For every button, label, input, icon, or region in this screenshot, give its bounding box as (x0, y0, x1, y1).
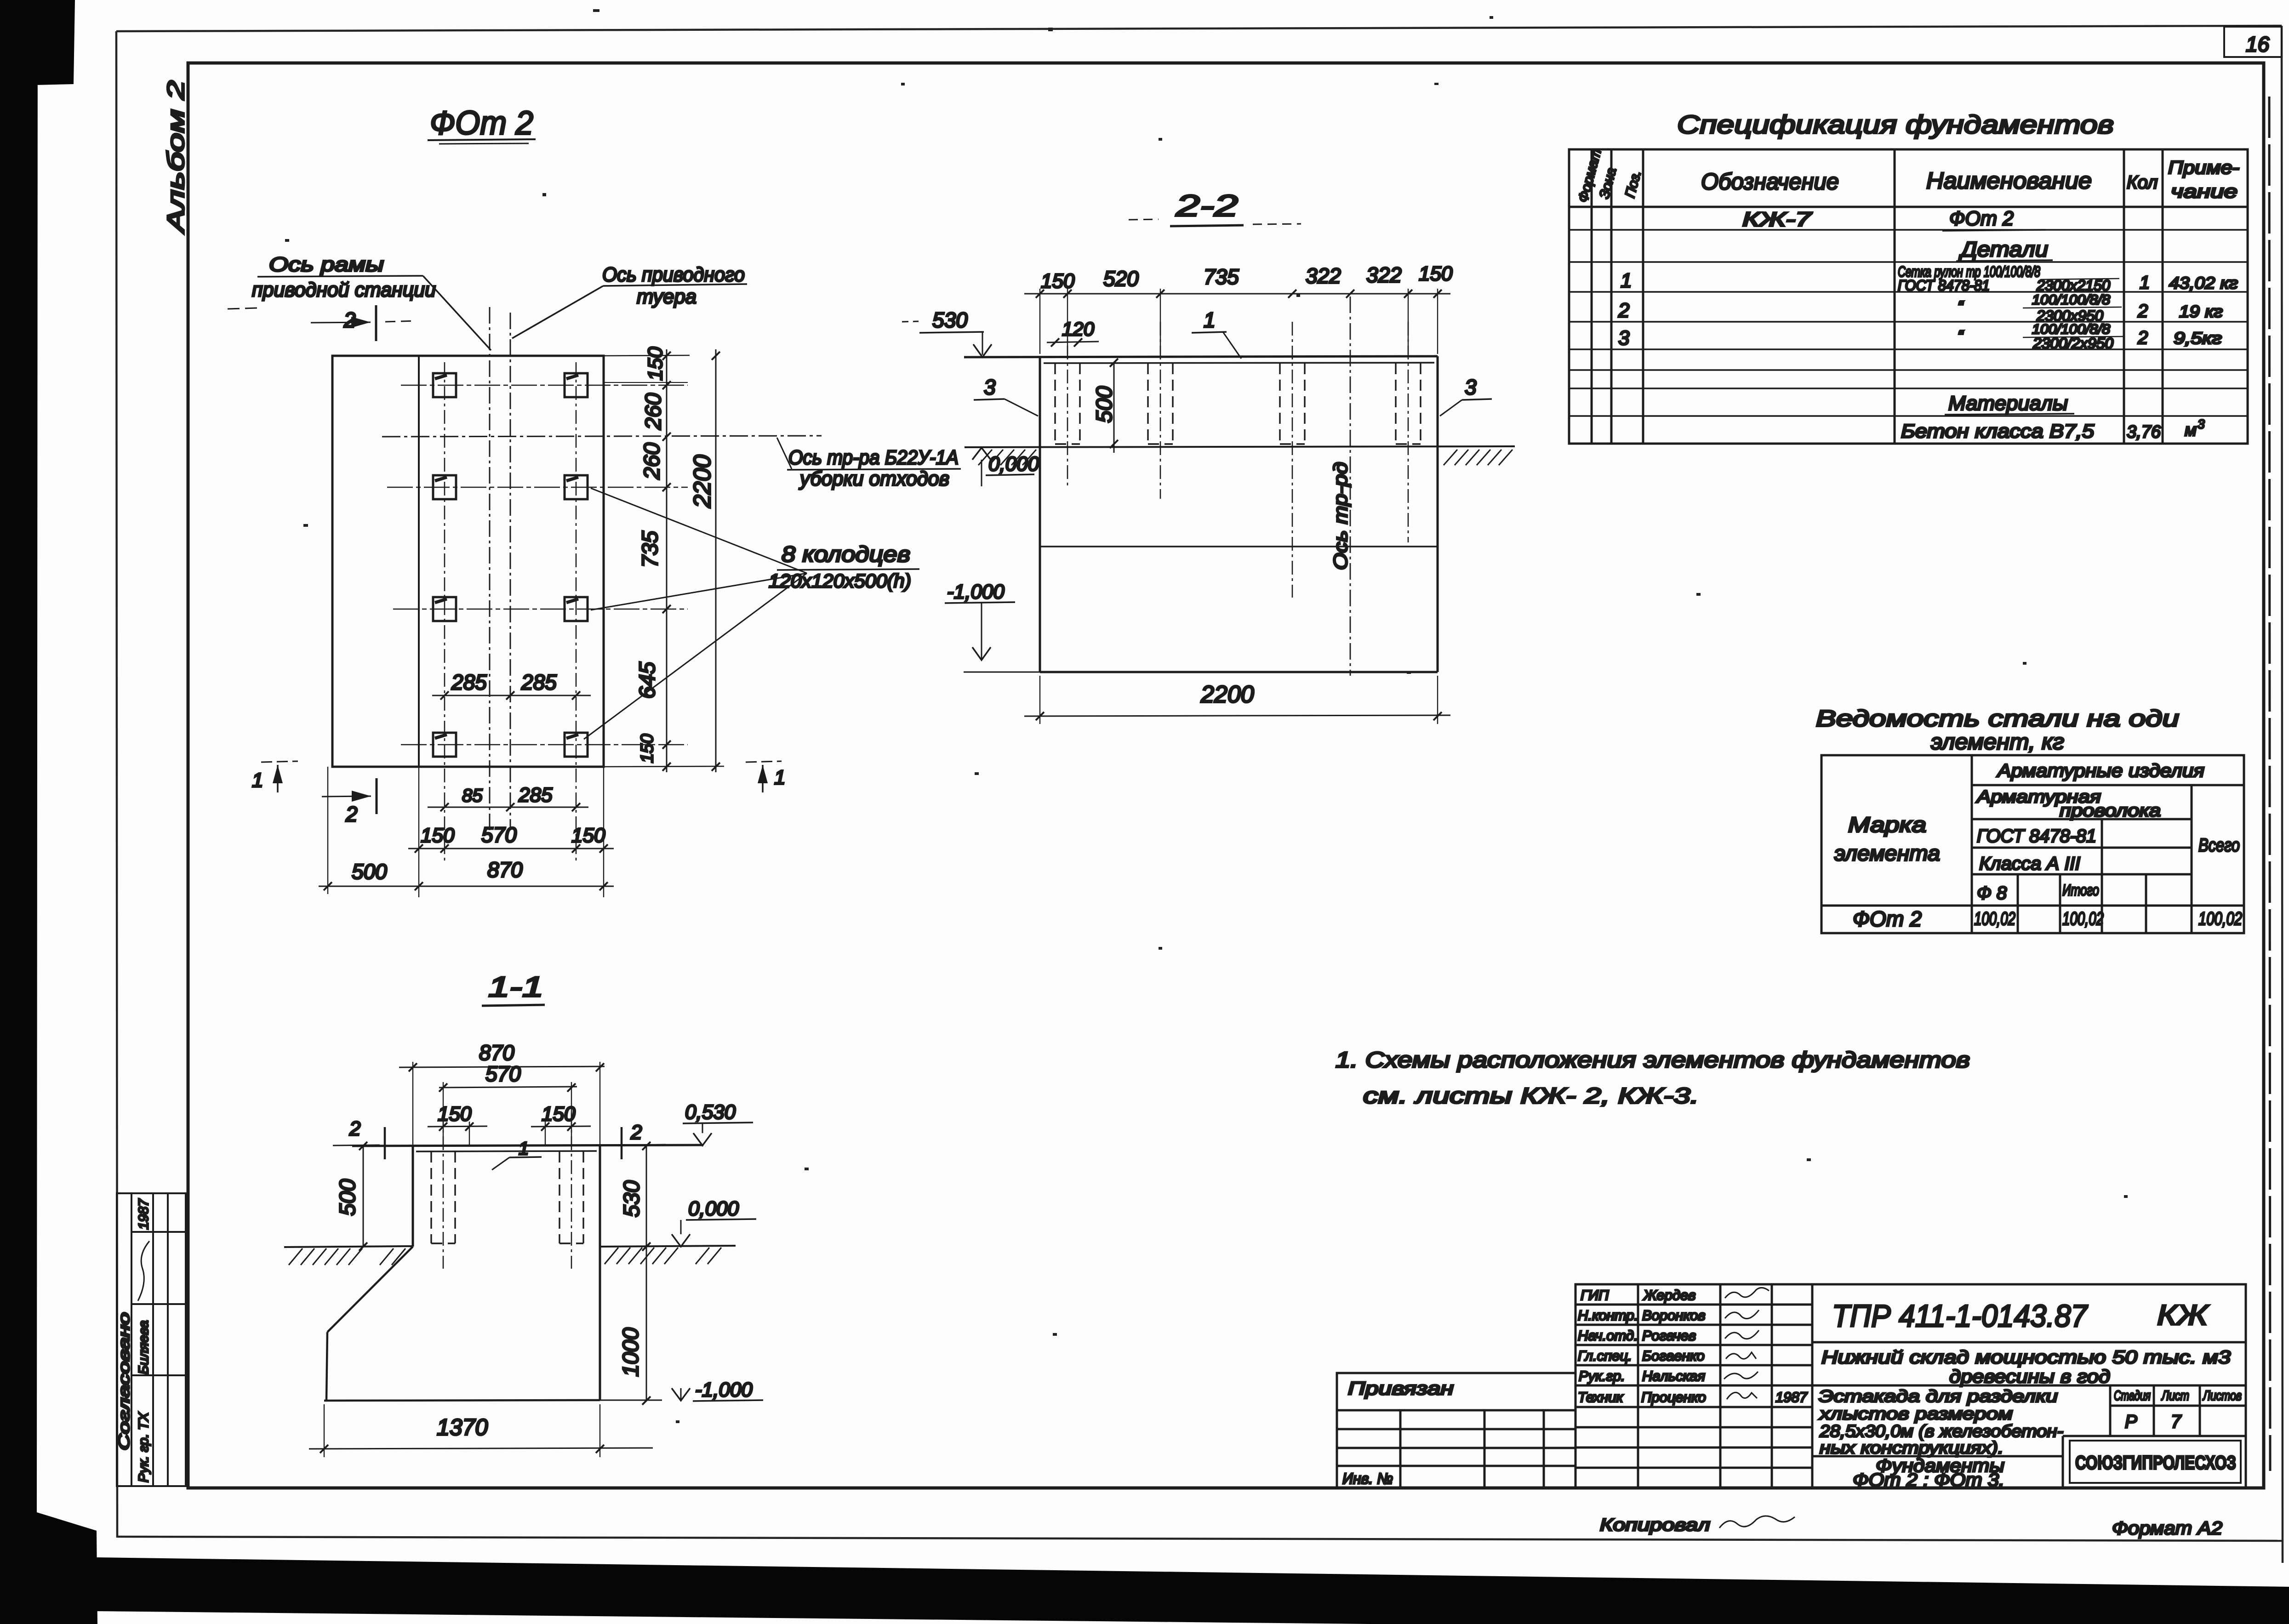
section 2-2 body (964, 356, 1438, 672)
spec row 2 mesh (1618, 292, 2223, 324)
svg-text:Ось рамы: Ось рамы (269, 253, 384, 276)
svg-text:Приме-: Приме- (2168, 158, 2239, 178)
ground hatch left (978, 450, 1036, 465)
svg-text:100,02: 100,02 (1974, 909, 2015, 929)
section 1-1 pedestal (352, 1145, 703, 1401)
ground hatch right (1444, 450, 1513, 465)
dim 85 285 lower (428, 784, 588, 811)
svg-text:260: 260 (640, 443, 664, 480)
level 0.000 in 1-1 (672, 1197, 756, 1247)
svg-text:120: 120 (1062, 318, 1095, 340)
spec row КЖ-7 ФОт2 (1742, 207, 2046, 231)
svg-text:150: 150 (638, 734, 657, 763)
conveyor axis horizontal (382, 436, 822, 437)
svg-text:735: 735 (638, 531, 662, 568)
svg-text:1: 1 (774, 766, 785, 789)
svg-text:-1,000: -1,000 (947, 581, 1005, 603)
svg-text:Марка: Марка (1848, 813, 1926, 837)
plan axis of tuyer (vertical dash-dot) (510, 313, 511, 827)
svg-text:322: 322 (1366, 263, 1402, 287)
svg-text:150: 150 (421, 824, 455, 847)
svg-text:ФОт 2 ; ФОт 3.: ФОт 2 ; ФОт 3. (1853, 1470, 2004, 1490)
svg-text:2: 2 (2137, 301, 2148, 321)
svg-text:28,5х30,0м (в железобетон-: 28,5х30,0м (в железобетон- (1819, 1422, 2063, 1441)
drawing frame border (188, 63, 2264, 1488)
svg-text:2: 2 (1618, 299, 1629, 322)
svg-text:530: 530 (620, 1180, 644, 1217)
section mark 1 left (252, 761, 298, 792)
svg-text:КЖ-7: КЖ-7 (1742, 208, 1812, 231)
steel table grid (1821, 755, 2244, 933)
conveyor axis in section (1350, 296, 1351, 676)
scan speckles (285, 9, 2128, 1423)
svg-text:древесины в год: древесины в год (1949, 1367, 2110, 1387)
level -1.000 in 1-1 (600, 1379, 763, 1401)
svg-text:1: 1 (252, 769, 263, 792)
section 2-2 title (1129, 188, 1301, 226)
svg-text:Проценко: Проценко (1641, 1389, 1706, 1405)
svg-text:Рук.гр.: Рук.гр. (1579, 1368, 1625, 1384)
svg-text:1. Схемы расположения элементо: 1. Схемы расположения элементов фундамен… (1336, 1048, 1970, 1072)
svg-text:3: 3 (1618, 327, 1630, 349)
svg-text:285: 285 (451, 670, 487, 694)
svg-text:3: 3 (984, 375, 996, 399)
svg-text:150: 150 (1419, 262, 1453, 285)
svg-text:260: 260 (641, 393, 666, 430)
svg-text:100/100/8/8: 100/100/8/8 (2032, 292, 2110, 308)
dim 2200 bottom (1024, 676, 1450, 724)
svg-text:Нальская: Нальская (1642, 1368, 1705, 1384)
svg-text:870: 870 (479, 1041, 514, 1065)
svg-text:1370: 1370 (437, 1414, 488, 1440)
svg-text:Бетон класса В7,5: Бетон класса В7,5 (1901, 420, 2095, 442)
pedestal inner top line (416, 1151, 597, 1151)
copied-by note (1600, 1516, 1795, 1535)
svg-text:Материалы: Материалы (1948, 392, 2068, 415)
svg-text:1987: 1987 (1775, 1389, 1808, 1405)
well row line 1 (401, 385, 688, 386)
spec row 1 mesh (1621, 263, 2238, 294)
svg-text:Копировал: Копировал (1600, 1516, 1710, 1535)
svg-text:2: 2 (2137, 328, 2148, 348)
svg-text:чание: чание (2171, 182, 2238, 202)
svg-text:120х120х500(h): 120х120х500(h) (769, 570, 911, 592)
svg-text:Наименование: Наименование (1926, 168, 2092, 194)
svg-text:Спецификация фундаментов: Спецификация фундаментов (1677, 110, 2114, 139)
svg-text:520: 520 (1103, 267, 1139, 291)
svg-text:0,530: 0,530 (685, 1101, 736, 1123)
svg-text:ФОт 2: ФОт 2 (1853, 907, 1922, 931)
dim 1000 right vertical (619, 1247, 651, 1405)
svg-text:3: 3 (1465, 375, 1477, 399)
svg-text:1: 1 (1621, 269, 1632, 292)
svg-text:Итого: Итого (2062, 882, 2099, 899)
svg-text:150: 150 (644, 347, 667, 381)
svg-text:Ось приводного: Ось приводного (602, 263, 745, 286)
svg-text:Н.контр.: Н.контр. (1578, 1307, 1638, 1323)
plan top edge extension (604, 355, 690, 356)
well row line 2 (387, 487, 688, 488)
sheet name lines (1818, 1387, 2063, 1457)
svg-text:1987: 1987 (136, 1198, 151, 1230)
svg-text:2: 2 (345, 802, 358, 826)
dim 285 285 inner (432, 670, 591, 700)
title block left extension grid (1337, 1373, 1575, 1488)
svg-text:Класса А III: Класса А III (1979, 854, 2080, 874)
steel table data row (1853, 907, 2242, 931)
svg-text:ФОт 2: ФОт 2 (430, 105, 533, 142)
svg-text:0,000: 0,000 (988, 453, 1039, 475)
svg-text:100,02: 100,02 (2198, 909, 2242, 929)
svg-text:Нижний склад мощностью 50 ты: Нижний склад мощностью 50 тыс. м3 (1821, 1347, 2231, 1368)
svg-text:Детали: Детали (1958, 237, 2048, 261)
svg-text:870: 870 (487, 858, 523, 882)
wells dashed in section (1055, 363, 1421, 444)
spec row 3 mesh (1618, 322, 2222, 352)
well axes in section (1067, 322, 1408, 598)
svg-text:0,000: 0,000 (688, 1197, 739, 1220)
svg-text:19 кг: 19 кг (2179, 302, 2223, 321)
title block right part grid (1812, 1342, 2246, 1488)
svg-text:500: 500 (336, 1179, 360, 1216)
dim 500 left vertical (322, 1142, 413, 1251)
svg-text:“: “ (1958, 297, 1964, 316)
svg-text:150: 150 (542, 1103, 576, 1125)
leader mark 1 mesh in 1-1 (492, 1139, 542, 1170)
svg-text:ФОт 2: ФОт 2 (1949, 207, 2014, 230)
svg-text:1-1: 1-1 (488, 971, 543, 1003)
svg-text:285: 285 (521, 670, 557, 694)
svg-text:3: 3 (2198, 417, 2205, 431)
svg-text:Ось тр-ра Б22У-1А: Ось тр-ра Б22У-1А (788, 446, 959, 469)
approval signature squiggle (138, 1241, 149, 1301)
svg-text:16: 16 (2246, 32, 2270, 56)
svg-text:“: “ (1958, 327, 1964, 346)
svg-text:Р: Р (2125, 1412, 2137, 1432)
svg-text:Ведомость стали на оди: Ведомость стали на оди (1816, 706, 2179, 731)
spec header texts (1575, 147, 2239, 204)
svg-text:Эстакада для разделки: Эстакада для разделки (1819, 1387, 2058, 1406)
svg-text:элемент, кг: элемент, кг (1931, 730, 2064, 754)
svg-text:проволока: проволока (2060, 801, 2161, 821)
signature rows texts (1578, 1287, 1808, 1405)
svg-text:Гл.спец.: Гл.спец. (1578, 1348, 1632, 1364)
svg-text:85: 85 (462, 786, 483, 806)
svg-text:1000: 1000 (619, 1328, 643, 1377)
svg-text:530: 530 (932, 308, 968, 332)
svg-text:285: 285 (518, 784, 553, 806)
svg-text:Лист: Лист (2161, 1388, 2189, 1403)
svg-text:2300х2150: 2300х2150 (2036, 277, 2110, 294)
svg-text:322: 322 (1306, 264, 1341, 288)
scan artifact: bottom black band (94, 1557, 2289, 1624)
section 2-2 inner top line (1044, 363, 1434, 363)
dim 150 570 150 (408, 823, 614, 853)
section mark 2 lower (322, 778, 377, 826)
svg-text:Жердев: Жердев (1643, 1287, 1695, 1303)
ground hatch right 1-1 (605, 1248, 721, 1264)
svg-text:Богаенко: Богаенко (1642, 1348, 1705, 1364)
svg-text:ГОСТ 8478-81: ГОСТ 8478-81 (1898, 277, 1990, 294)
svg-text:2-2: 2-2 (1176, 188, 1238, 222)
well column axis left (444, 362, 445, 862)
plan bottom edge extension (604, 766, 724, 767)
page number 16 box (2224, 27, 2282, 57)
plan slab edge line (418, 356, 420, 767)
svg-text:3,76: 3,76 (2127, 422, 2161, 442)
leader 8 wells (584, 488, 919, 739)
dim 500 well depth (1092, 359, 1118, 453)
scan artifact: left black band (0, 0, 97, 1624)
svg-text:Инв. №: Инв. № (1342, 1470, 1393, 1487)
svg-text:Рогачев: Рогачев (1642, 1328, 1696, 1344)
svg-text:элемента: элемента (1834, 841, 1940, 865)
svg-text:Арматурные изделия: Арматурные изделия (1997, 761, 2204, 781)
svg-text:Согласовано: Согласовано (115, 1312, 132, 1450)
svg-text:хлыстов размером: хлыстов размером (1818, 1404, 2013, 1423)
svg-text:уборки отходов: уборки отходов (799, 467, 949, 490)
svg-text:9,5кг: 9,5кг (2174, 329, 2222, 348)
approval side table (117, 1193, 186, 1486)
label conveyor axis Б22У-1А (777, 438, 961, 490)
svg-text:Ось тр-рд: Ось тр-рд (1330, 462, 1351, 570)
svg-text:-1,000: -1,000 (695, 1379, 753, 1401)
dim 2200 overall (689, 349, 720, 772)
dim 150 left (428, 1103, 487, 1145)
svg-text:туера: туера (637, 285, 696, 308)
well squares 8 pcs (433, 373, 588, 757)
svg-text:500: 500 (352, 860, 387, 883)
svg-text:Обозначение: Обозначение (1701, 169, 1839, 194)
svg-text:500: 500 (1092, 386, 1117, 423)
title block signature grid (1575, 1284, 2246, 1488)
svg-text:735: 735 (1204, 265, 1239, 289)
plan axis of frame (vertical dash-dot) (489, 307, 491, 841)
svg-text:м: м (2185, 421, 2197, 440)
svg-text:Альбом 2: Альбом 2 (163, 80, 189, 234)
svg-text:ТПР 411-1-0143.87: ТПР 411-1-0143.87 (1832, 1299, 2088, 1333)
plan title ФОт 2 (428, 105, 536, 144)
svg-text:2200: 2200 (1200, 681, 1254, 708)
section mark 2 upper (311, 305, 416, 341)
svg-text:Формат А2: Формат А2 (2112, 1518, 2222, 1539)
plan outline (332, 356, 604, 767)
spec row Материалы (1945, 392, 2074, 415)
section 2-2 top dimension chain 150 520 735 322 322 150 (1024, 262, 1453, 354)
extension lines below plan (328, 767, 604, 897)
svg-text:2: 2 (349, 1117, 360, 1140)
svg-text:Ф 8: Ф 8 (1977, 883, 2007, 903)
level +530 left (902, 308, 992, 357)
spec row Детали (1956, 237, 2053, 261)
ground line left of 1-1 (284, 1246, 413, 1247)
note text (1336, 1048, 1970, 1108)
svg-text:Техник: Техник (1578, 1389, 1624, 1405)
section 1-1 title (482, 971, 545, 1006)
leader mark 3 left (974, 375, 1038, 416)
section mark 1 right (746, 761, 785, 792)
level 0.530 (683, 1101, 753, 1145)
organisation stamp box (2070, 1441, 2241, 1483)
section 2-2 mid construction joint (1040, 546, 1438, 547)
steel list title (1816, 706, 2179, 754)
svg-text:150: 150 (571, 824, 605, 847)
ground line right of 1-1 (600, 1246, 736, 1247)
svg-text:ГОСТ 8478-81: ГОСТ 8478-81 (1977, 826, 2096, 846)
svg-text:КЖ: КЖ (2157, 1299, 2209, 1331)
stage headers (2114, 1388, 2242, 1403)
svg-text:8 колодцев: 8 колодцев (782, 542, 910, 567)
svg-text:Рук. гр. ТХ: Рук. гр. ТХ (136, 1412, 151, 1482)
spec row concrete (1901, 417, 2205, 442)
svg-text:Кол: Кол (2127, 172, 2158, 193)
svg-text:Биляева: Биляева (136, 1320, 151, 1374)
level -1.000 mark (945, 581, 1040, 672)
signature squiggles (1724, 1288, 1769, 1399)
svg-text:1: 1 (2140, 273, 2150, 293)
svg-text:100,02: 100,02 (2062, 909, 2104, 929)
svg-text:645: 645 (635, 662, 660, 699)
label axis of drive station frame (228, 253, 491, 350)
well column axis right (576, 362, 577, 862)
dim 1370 bottom (309, 1404, 653, 1457)
svg-text:Листов: Листов (2202, 1388, 2242, 1403)
well row line 4 (401, 744, 688, 746)
scan artifact: top-left black notch (14, 0, 75, 85)
dim 150 right (531, 1103, 591, 1145)
steel table header texts (1834, 761, 2240, 903)
svg-text:Привязан: Привязан (1348, 1379, 1454, 1399)
svg-text:2200: 2200 (689, 455, 716, 508)
ground hatch left 1-1 (289, 1248, 405, 1265)
svg-text:см. листы КЖ- 2, КЖ-3.: см. листы КЖ- 2, КЖ-3. (1363, 1084, 1699, 1108)
svg-text:150: 150 (1041, 270, 1075, 292)
foundation pit profile (324, 1247, 600, 1401)
leader mark 3 right (1440, 375, 1492, 416)
svg-text:43,02 кг: 43,02 кг (2169, 274, 2238, 292)
svg-text:Воронков: Воронков (1642, 1307, 1706, 1323)
svg-text:ГИП: ГИП (1581, 1287, 1609, 1303)
wells dashed in 1-1 (431, 1151, 583, 1243)
dim 500 870 (319, 858, 614, 890)
dim 870 top (399, 1041, 605, 1145)
specification table grid (1569, 149, 2248, 444)
svg-text:1: 1 (1204, 308, 1216, 332)
svg-text:СОЮЗГИПРОЛЕСХОЗ: СОЮЗГИПРОЛЕСХОЗ (2075, 1452, 2236, 1473)
ground line 0.000 (965, 446, 1515, 447)
svg-text:Нач.отд.: Нач.отд. (1578, 1328, 1638, 1344)
dim 570 (439, 1062, 577, 1145)
svg-text:570: 570 (485, 1062, 521, 1086)
section mark 2 right of 1-1 (622, 1121, 666, 1159)
level 0.000 mark (972, 448, 1039, 486)
dim 120 small (1047, 318, 1099, 347)
label axis of drive tuyer (512, 263, 747, 338)
dim 530 right vertical (620, 1142, 651, 1251)
svg-text:Всего: Всего (2198, 835, 2240, 855)
svg-text:2: 2 (630, 1121, 642, 1144)
svg-text:2300/2х950: 2300/2х950 (2032, 335, 2113, 352)
svg-text:7: 7 (2171, 1412, 2182, 1432)
svg-text:Стадия: Стадия (2114, 1388, 2151, 1403)
well axes in 1-1 (443, 1112, 571, 1269)
svg-text:приводной станции: приводной станции (252, 279, 436, 301)
well row line 3 (393, 609, 688, 610)
leader mark 1 mesh (1192, 308, 1241, 359)
dim chain right inner (604, 347, 688, 772)
svg-text:570: 570 (481, 823, 517, 847)
section mark 2 left of 1-1 (333, 1117, 385, 1159)
svg-text:1: 1 (519, 1139, 529, 1159)
svg-text:ных конструкциях).: ных конструкциях). (1820, 1438, 2004, 1457)
